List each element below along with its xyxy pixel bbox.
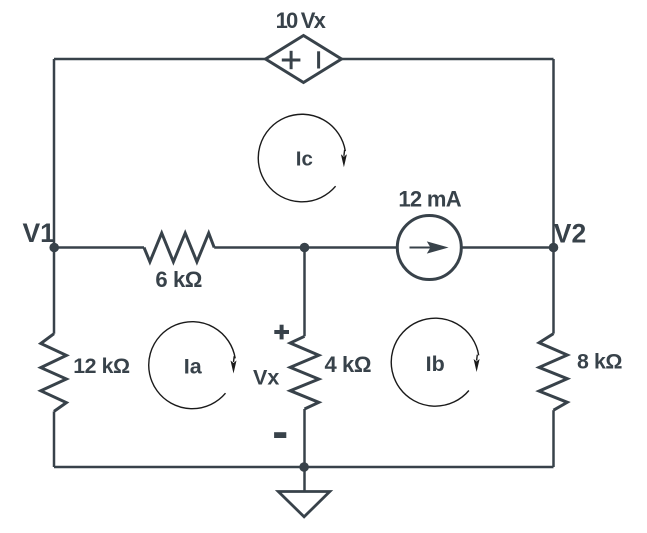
svg-text:6 kΩ: 6 kΩ [155,267,202,292]
svg-text:12 kΩ: 12 kΩ [73,354,130,378]
svg-text:V2: V2 [554,218,586,248]
svg-text:Ia: Ia [184,355,203,379]
svg-text:V1: V1 [23,218,55,248]
svg-text:12 mA: 12 mA [398,186,461,211]
svg-text:10 Vx: 10 Vx [276,8,327,33]
svg-text:Vx: Vx [253,366,279,390]
svg-text:4 kΩ: 4 kΩ [325,352,372,377]
svg-text:Ic: Ic [296,147,313,170]
svg-text:8 kΩ: 8 kΩ [577,350,622,374]
svg-text:Ib: Ib [426,352,445,376]
